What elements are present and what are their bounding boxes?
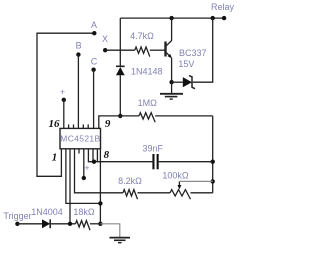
svg-text:18kΩ: 18kΩ: [73, 207, 95, 217]
junction pin3 on trigger wire: [68, 222, 72, 226]
svg-text:8: 8: [104, 149, 110, 161]
wire pin 2 down and right: [66, 149, 101, 204]
wire pin 3 down to trigger line: [69, 149, 71, 224]
wire pin 8 straight down: [99, 149, 101, 224]
junction pin8/trigger net: [98, 222, 102, 226]
junction wiper wire on right rail: [211, 179, 215, 183]
wire top rail down to diode 1N4148 cathode: [119, 18, 121, 66]
IC bottom pin stub: [78, 149, 80, 154]
wire emitter down: [171, 58, 173, 82]
wire 8.2k to pot: [138, 192, 171, 194]
svg-text:BC337: BC337: [179, 48, 207, 58]
node Trigger: [15, 222, 19, 226]
wire left rail from A down and along bottom to pin 1: [37, 33, 94, 176]
wire zener cathode to top rail: [193, 18, 213, 82]
resistor 8.2k: [123, 190, 138, 200]
top rail wire: [120, 17, 224, 19]
node B: [76, 52, 80, 56]
svg-text:1: 1: [52, 152, 58, 164]
svg-text:4.7kΩ: 4.7kΩ: [130, 31, 154, 41]
node A: [92, 31, 96, 35]
wire pot right end to rail: [191, 192, 213, 194]
svg-text:B: B: [76, 41, 82, 51]
wire cap to right rail: [159, 161, 213, 163]
wire emitter junction to ground: [171, 82, 173, 93]
diode 1N4148: [116, 65, 125, 67]
pot wiper arrow: [178, 181, 180, 186]
junction 1N4148 anode / 1M wire: [118, 114, 122, 118]
junction on cap net: [92, 160, 96, 164]
svg-text:A: A: [91, 20, 97, 30]
svg-text:MC4521B: MC4521B: [60, 133, 100, 143]
svg-text:8.2kΩ: 8.2kΩ: [118, 176, 142, 186]
svg-text:1N4004: 1N4004: [31, 207, 63, 217]
IC top pin stubs: [68, 124, 70, 128]
junction pin8/pin2 net: [98, 201, 102, 205]
svg-text:15V: 15V: [178, 59, 194, 69]
wire diode to 18k: [50, 223, 75, 225]
ground bottom: [110, 237, 131, 239]
svg-text:9: 9: [105, 118, 111, 130]
wire 1M to right rail: [155, 115, 213, 117]
node + on pin 5: [83, 149, 85, 178]
wire pin 9 up and right: [99, 116, 139, 128]
wire + to IC pin 16: [63, 100, 65, 129]
wire resistor to base Q1: [150, 49, 165, 51]
potentiometer 100k body: [170, 190, 191, 200]
diode 1N4004: [42, 219, 50, 228]
svg-text:Relay: Relay: [211, 2, 235, 12]
right rail: [212, 116, 214, 193]
wire node C to IC pin 10: [93, 70, 95, 129]
svg-text:1N4148: 1N4148: [131, 67, 163, 77]
wire pin 4 down to 8.2k row: [75, 149, 124, 193]
resistor 18k: [76, 221, 91, 231]
wiper wire to rail (gray): [179, 180, 212, 182]
svg-text:+: +: [60, 87, 65, 97]
wire 1N4148 anode down to pin 9 net: [119, 75, 121, 116]
svg-text:Trigger: Trigger: [3, 211, 31, 221]
wire X to resistor R 4.7k: [105, 49, 135, 51]
resistor 4.7k: [135, 47, 150, 57]
wire trigger net to ground (gray): [100, 224, 119, 237]
junction emitter / zener: [169, 80, 173, 84]
wire trigger to diode: [17, 223, 42, 225]
svg-text:39nF: 39nF: [142, 144, 163, 154]
wire 18k to pin8 junction: [90, 223, 100, 225]
node X: [103, 48, 107, 52]
junction zener drop on top rail: [211, 16, 215, 20]
wire collector to top rail: [171, 18, 173, 41]
svg-text:16: 16: [49, 118, 61, 130]
svg-text:X: X: [102, 34, 108, 44]
resistor 1M: [139, 113, 155, 123]
wire pins 6,7 down to cap net: [88, 149, 152, 162]
node C: [91, 68, 95, 72]
ground below BC337: [160, 93, 183, 95]
svg-text:+: +: [84, 163, 89, 173]
junction collector on top rail: [169, 16, 173, 20]
svg-text:1MΩ: 1MΩ: [138, 98, 158, 108]
svg-text:100kΩ: 100kΩ: [162, 171, 189, 181]
IC U1 MC4521B: [60, 128, 101, 148]
transistor Q1 BC337: [164, 42, 166, 57]
node Relay terminal: [222, 16, 226, 20]
svg-text:C: C: [91, 57, 98, 67]
wire node B to IC pin 13: [77, 55, 79, 129]
junction cap wire on right rail: [211, 160, 215, 164]
